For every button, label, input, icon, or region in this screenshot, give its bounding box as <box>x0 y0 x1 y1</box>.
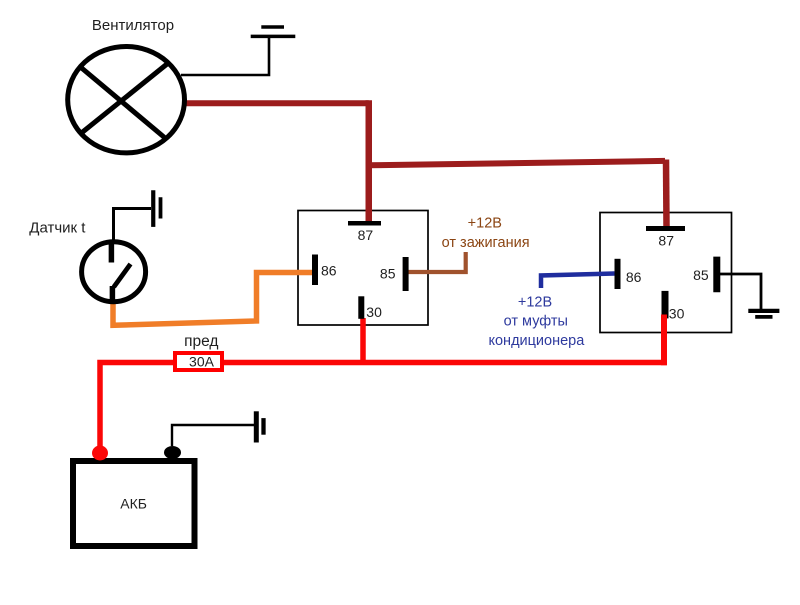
fuse F1 30A <box>175 353 222 370</box>
fan M1 cross blade 1 <box>81 68 165 138</box>
svg-text:86: 86 <box>321 263 337 279</box>
wire: sensor bottom to relay K1 pin 86, orange <box>113 273 314 326</box>
svg-text:85: 85 <box>693 267 709 283</box>
wire: fan to top ground, black <box>181 38 269 75</box>
wire: battery - to ground, black <box>172 425 256 446</box>
svg-text:87: 87 <box>658 232 674 248</box>
relay K2 pin 85 <box>713 257 720 293</box>
svg-text:87: 87 <box>358 227 374 243</box>
fan M1 cross blade 2 <box>80 64 168 135</box>
wire: node down to relay K1 pin 87, dark red <box>366 100 373 221</box>
wire: down to relay K2 pin 87, dark red <box>663 160 670 227</box>
svg-text:пред: пред <box>184 333 218 350</box>
ground G4 (right-facing, near battery) <box>254 411 259 442</box>
svg-text:кондиционера: кондиционера <box>488 333 585 349</box>
wire: main red bus horizontal and down to battery + <box>100 363 667 451</box>
svg-text:30: 30 <box>669 305 685 321</box>
svg-text:Вентилятор: Вентилятор <box>92 17 174 34</box>
wire: relay K2 pin 85 to ground, black <box>720 274 761 310</box>
sensor B1 switch blade <box>114 264 131 287</box>
wire: +12V AC clutch to relay K2 pin 86, blue <box>541 274 615 289</box>
sensor B1 bottom contact <box>110 286 116 302</box>
relay K1 pin 85 <box>403 257 409 291</box>
relay K2 pin 87 <box>646 226 685 231</box>
sensor B1 circle <box>82 242 146 302</box>
relay K2 pin 86 <box>615 259 621 289</box>
battery + terminal (red) <box>92 446 108 461</box>
ground G2 (right-facing, near sensor) <box>151 190 155 227</box>
fan M1 circle <box>68 46 185 152</box>
wire: fan to node, dark red <box>184 100 369 106</box>
svg-text:Датчик t: Датчик t <box>29 219 86 236</box>
svg-text:+12В: +12В <box>468 216 502 232</box>
svg-text:86: 86 <box>626 269 642 285</box>
sensor B1 top contact <box>109 241 115 263</box>
svg-text:30А: 30А <box>189 353 215 369</box>
svg-text:АКБ: АКБ <box>120 496 147 512</box>
svg-text:от зажигания: от зажигания <box>442 235 530 251</box>
relay K1 box <box>298 211 428 326</box>
ground G3 (right of relay K2) <box>748 309 779 313</box>
wire: red bus battery to relays pin 30 <box>360 318 366 363</box>
svg-text:от муфты: от муфты <box>504 314 568 330</box>
wire: node to relay K2, dark red horizontal <box>366 161 665 165</box>
wire: relay K1 pin 85 to +12V ignition, brown <box>408 252 466 272</box>
relay K2 box <box>600 213 732 333</box>
wire: relay K2 pin 30 down, red <box>661 315 667 366</box>
battery - terminal (black) <box>164 446 181 459</box>
svg-text:30: 30 <box>366 304 382 320</box>
relay K1 pin 86 <box>312 255 318 286</box>
svg-text:85: 85 <box>380 266 396 282</box>
ground G1 (top, short bar above long bar) <box>261 25 284 29</box>
relay K2 pin 30 <box>662 291 669 319</box>
battery GB1 box <box>73 461 195 546</box>
relay K1 pin 87 <box>348 221 381 226</box>
relay K1 pin 30 <box>358 296 364 319</box>
wire: sensor top to ground, black <box>114 209 152 242</box>
svg-text:+12В: +12В <box>518 295 552 311</box>
